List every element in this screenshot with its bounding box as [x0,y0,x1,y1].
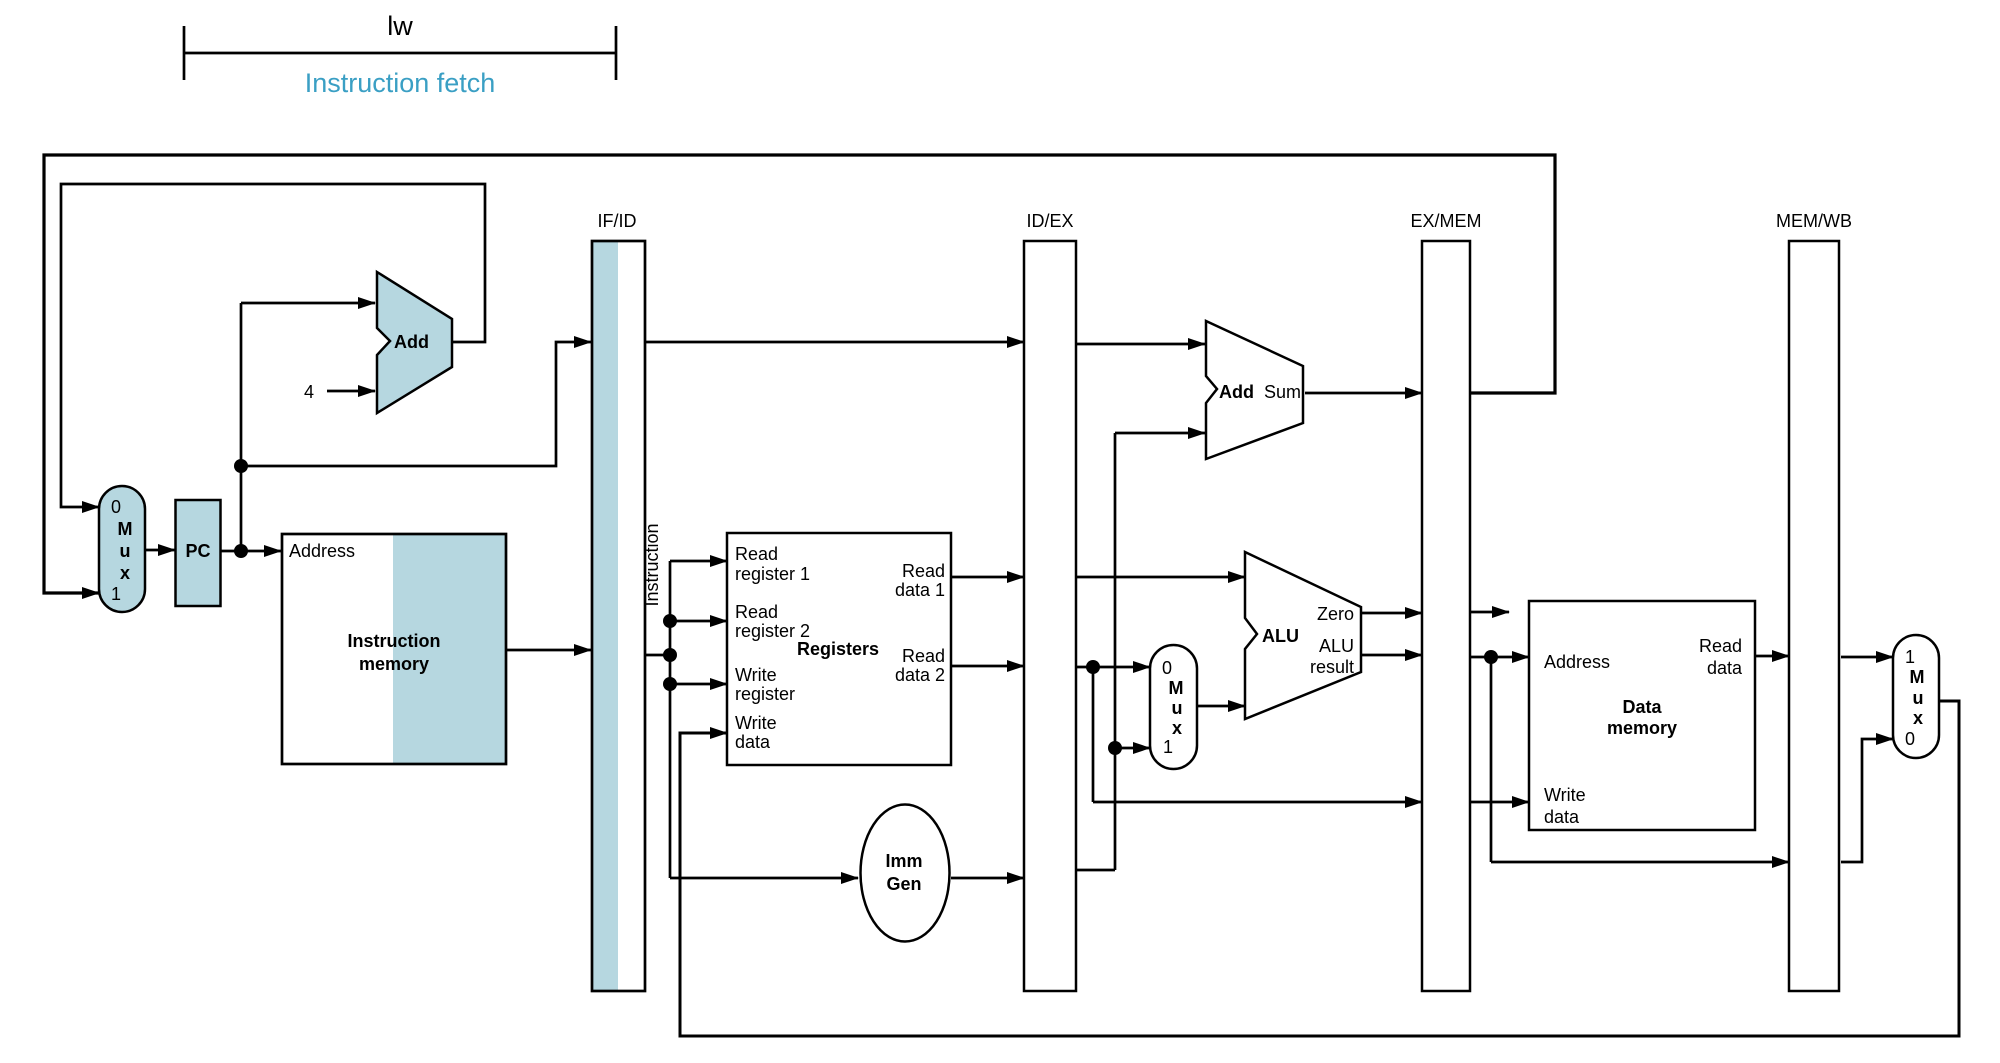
svg-text:M: M [1169,678,1184,698]
svg-text:register: register [735,684,795,704]
svg-text:data 1: data 1 [895,580,945,600]
svg-text:M: M [1910,667,1925,687]
svg-text:EX/MEM: EX/MEM [1410,211,1481,231]
svg-text:lw: lw [387,11,413,41]
svg-text:x: x [1913,708,1923,728]
svg-text:Instruction fetch: Instruction fetch [305,68,496,98]
svg-text:1: 1 [111,584,121,604]
svg-text:Read: Read [735,602,778,622]
svg-text:data: data [1544,807,1580,827]
svg-text:1: 1 [1163,737,1173,757]
svg-text:4: 4 [304,382,314,402]
svg-text:0: 0 [1162,658,1172,678]
svg-text:ALU: ALU [1319,636,1354,656]
svg-text:IF/ID: IF/ID [598,211,637,231]
svg-text:Imm: Imm [885,851,922,871]
svg-text:Read: Read [735,544,778,564]
svg-text:x: x [1172,718,1182,738]
svg-text:ID/EX: ID/EX [1026,211,1073,231]
svg-text:memory: memory [1607,718,1677,738]
svg-text:0: 0 [1905,729,1915,749]
svg-text:Zero: Zero [1317,604,1354,624]
svg-text:Read: Read [902,646,945,666]
svg-text:0: 0 [111,497,121,517]
svg-text:u: u [1172,698,1183,718]
svg-text:Add: Add [1219,382,1254,402]
svg-text:Instruction: Instruction [642,523,662,606]
svg-text:M: M [118,519,133,539]
svg-text:u: u [1913,688,1924,708]
svg-text:ALU: ALU [1262,626,1299,646]
svg-text:Sum: Sum [1264,382,1301,402]
svg-text:Write: Write [735,665,777,685]
svg-text:Address: Address [1544,652,1610,672]
svg-text:x: x [120,563,130,583]
svg-text:Read: Read [1699,636,1742,656]
svg-text:Write: Write [735,713,777,733]
svg-text:memory: memory [359,654,429,674]
svg-text:register 2: register 2 [735,621,810,641]
svg-text:Instruction: Instruction [348,631,441,651]
svg-text:data 2: data 2 [895,665,945,685]
svg-text:data: data [735,732,771,752]
svg-text:Data: Data [1622,697,1662,717]
svg-text:Address: Address [289,541,355,561]
svg-text:Registers: Registers [797,639,879,659]
svg-text:Add: Add [394,332,429,352]
svg-text:1: 1 [1905,647,1915,667]
svg-text:register 1: register 1 [735,564,810,584]
svg-text:Gen: Gen [886,874,921,894]
svg-text:result: result [1310,657,1354,677]
svg-text:Write: Write [1544,785,1586,805]
svg-text:u: u [120,541,131,561]
svg-text:data: data [1707,658,1743,678]
svg-text:Read: Read [902,561,945,581]
svg-text:MEM/WB: MEM/WB [1776,211,1852,231]
svg-text:PC: PC [185,541,210,561]
